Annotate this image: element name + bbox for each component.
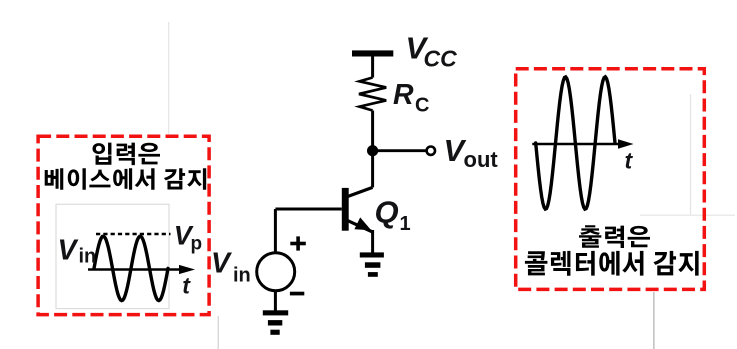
svg-text:R: R xyxy=(393,79,414,111)
svg-text:C: C xyxy=(415,95,429,117)
wire source to ground xyxy=(274,291,277,311)
right waveform axis (t) xyxy=(532,143,619,146)
right box text line1: 출력은 xyxy=(579,225,650,248)
left annotation box (dashed red) xyxy=(38,136,209,314)
source Vin (circle) xyxy=(257,253,295,291)
right box text line2: 콜렉터에서 감지 xyxy=(525,251,699,276)
minus sign xyxy=(290,292,304,296)
wire VCC bar to resistor xyxy=(371,57,374,78)
svg-text:V: V xyxy=(58,234,79,266)
svg-text:Q: Q xyxy=(375,195,399,230)
svg-text:in: in xyxy=(79,246,97,268)
right output sine wave xyxy=(536,77,615,209)
node junction dot xyxy=(367,145,378,156)
left input sine wave xyxy=(94,236,168,300)
transistor Q1 collector diagonal xyxy=(347,187,373,196)
left waveform panel xyxy=(56,204,169,308)
VCC supply bar xyxy=(352,50,393,56)
base wire xyxy=(275,208,341,211)
left waveform Vp dashed peak line xyxy=(96,233,171,235)
left box text line2: 베이스에서 감지 xyxy=(45,168,207,189)
wire node to output terminal xyxy=(373,149,426,152)
faint seam line bottom right xyxy=(653,292,655,349)
wire resistor to node xyxy=(371,111,374,188)
svg-text:V: V xyxy=(211,248,232,280)
svg-text:in: in xyxy=(233,265,251,287)
source ground symbol xyxy=(263,310,288,315)
transistor Q1 emitter diagonal with arrow xyxy=(347,220,373,232)
svg-text:out: out xyxy=(464,147,499,172)
faint seam lines xyxy=(169,22,735,215)
left waveform axis (t) xyxy=(88,268,181,271)
svg-text:t: t xyxy=(625,148,634,174)
output terminal (open circle) xyxy=(427,147,435,155)
svg-text:1: 1 xyxy=(400,213,411,235)
left box text line1: 입력은 xyxy=(93,143,160,165)
faint seam line bottom left xyxy=(217,316,219,349)
svg-text:t: t xyxy=(182,273,191,299)
emitter ground symbol xyxy=(360,252,384,257)
transistor Q1 base bar xyxy=(342,188,349,231)
svg-text:p: p xyxy=(191,234,203,255)
svg-text:CC: CC xyxy=(424,46,458,72)
wire base down to source xyxy=(274,209,277,253)
plus sign xyxy=(290,242,306,246)
wire emitter to ground xyxy=(371,230,374,253)
right annotation box (dashed red) xyxy=(516,69,705,290)
resistor RC zigzag xyxy=(359,78,386,111)
